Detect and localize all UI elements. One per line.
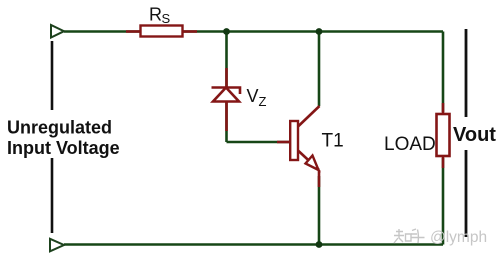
output bracket lower segment <box>465 150 468 237</box>
svg-text:T1: T1 <box>322 131 344 152</box>
svg-text:Z: Z <box>259 94 267 109</box>
wire collector vertical <box>318 32 321 107</box>
transistor Q1 emitter stub <box>318 170 321 187</box>
svg-text:Vout: Vout <box>453 124 496 146</box>
wire bottom rail <box>64 243 443 246</box>
transistor Q1 base lead <box>277 141 290 144</box>
zener diode D1 cathode lead <box>225 68 228 87</box>
wire emitter vertical <box>318 176 321 245</box>
svg-text:LOAD: LOAD <box>384 134 436 155</box>
input left lead upper segment <box>51 41 54 110</box>
input terminal top triangle <box>51 25 64 38</box>
svg-text:@lymph: @lymph <box>430 229 487 246</box>
zener diode D1 anode lead <box>225 102 228 132</box>
wire base connection horizontal <box>227 141 291 144</box>
load resistor body <box>437 114 450 156</box>
resistor R1 body <box>141 26 183 37</box>
transistor Q1 emitter diagonal <box>298 151 319 171</box>
output bracket upper segment <box>465 29 468 117</box>
transistor Q1 emitter arrow <box>306 156 319 171</box>
watermark zhihu logo glyphs <box>394 229 425 243</box>
wire load bottom to bottom rail <box>442 158 445 245</box>
svg-text:R: R <box>149 5 162 25</box>
svg-text:V: V <box>247 86 259 106</box>
wire zener branch vertical <box>225 32 228 143</box>
transistor Q1 base bar <box>290 121 298 160</box>
wire right drop to load <box>442 32 445 113</box>
resistor R1 leads <box>126 30 141 33</box>
input terminal bottom triangle <box>50 239 64 252</box>
input left lead lower segment <box>51 158 54 233</box>
svg-text:S: S <box>162 11 171 26</box>
junction node emitter bottom <box>316 241 323 248</box>
junction node after Rs <box>223 28 230 35</box>
transistor Q1 collector diagonal <box>298 106 320 127</box>
junction node collector top <box>316 28 323 35</box>
wire top rail from input terminal to right corner <box>64 30 443 33</box>
svg-text:Unregulated: Unregulated <box>7 118 112 138</box>
zener diode D1 cathode bar <box>212 88 241 95</box>
load resistor leads <box>442 103 445 115</box>
zener diode D1 triangle <box>213 88 239 102</box>
svg-text:Input Voltage: Input Voltage <box>7 138 120 158</box>
